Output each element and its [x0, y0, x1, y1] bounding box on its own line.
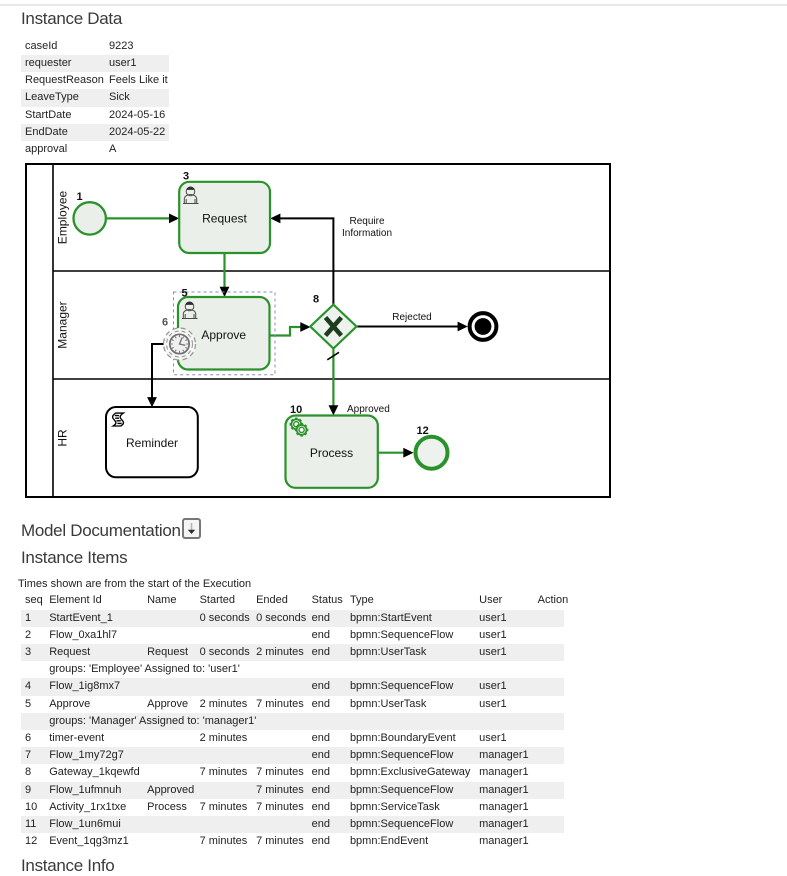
script icon Reminder	[113, 413, 124, 426]
svg-text:5: 5	[182, 287, 188, 299]
boundary timer event 6	[164, 328, 196, 360]
task Request	[179, 182, 270, 253]
wire start event to Request	[107, 213, 180, 223]
end event 12	[416, 437, 448, 469]
user icon Request	[183, 186, 199, 203]
pool Leave Request	[26, 164, 610, 497]
wire Approve to gateway	[270, 322, 311, 335]
wire gateway to Request (Require Information)	[270, 213, 333, 304]
svg-text:12: 12	[417, 425, 429, 437]
svg-text:8: 8	[313, 293, 319, 305]
svg-text:1: 1	[77, 191, 83, 203]
svg-text:Rejected: Rejected	[392, 312, 431, 323]
gateway 8 (exclusive)	[310, 305, 356, 349]
svg-text:Process: Process	[310, 446, 353, 460]
task Reminder	[106, 407, 198, 477]
end event (rejected)	[470, 313, 497, 340]
wire gateway to Process (Approved)	[329, 348, 339, 415]
lane divider Employee/Manager	[53, 270, 610, 272]
svg-text:Require: Require	[349, 216, 384, 227]
svg-text:HR: HR	[56, 429, 70, 447]
svg-text:10: 10	[290, 404, 302, 416]
wire Request to Approve	[220, 253, 230, 297]
svg-text:Manager: Manager	[56, 301, 70, 348]
task Approve	[178, 297, 270, 370]
wire gateway to end event (Rejected)	[357, 322, 468, 332]
lane divider Manager/HR	[53, 378, 610, 380]
BPMN diagram	[0, 150, 787, 510]
start event 1	[74, 202, 106, 234]
wire Process to event 12	[378, 448, 414, 458]
svg-text:Employee: Employee	[56, 190, 70, 244]
svg-text:Request: Request	[202, 211, 247, 225]
user icon Approve	[182, 301, 198, 318]
svg-text:Approved: Approved	[347, 404, 390, 415]
task Process	[286, 415, 378, 487]
svg-text:6: 6	[162, 316, 168, 328]
default flow slash	[327, 352, 339, 360]
wire timer to Reminder	[147, 344, 164, 407]
svg-text:Reminder: Reminder	[126, 436, 178, 450]
selection box around Approve	[174, 292, 276, 375]
service gears icon	[290, 418, 309, 437]
svg-text:Approve: Approve	[201, 328, 246, 342]
svg-text:Information: Information	[342, 228, 392, 239]
label Require Information	[342, 216, 392, 239]
svg-text:3: 3	[183, 170, 189, 182]
